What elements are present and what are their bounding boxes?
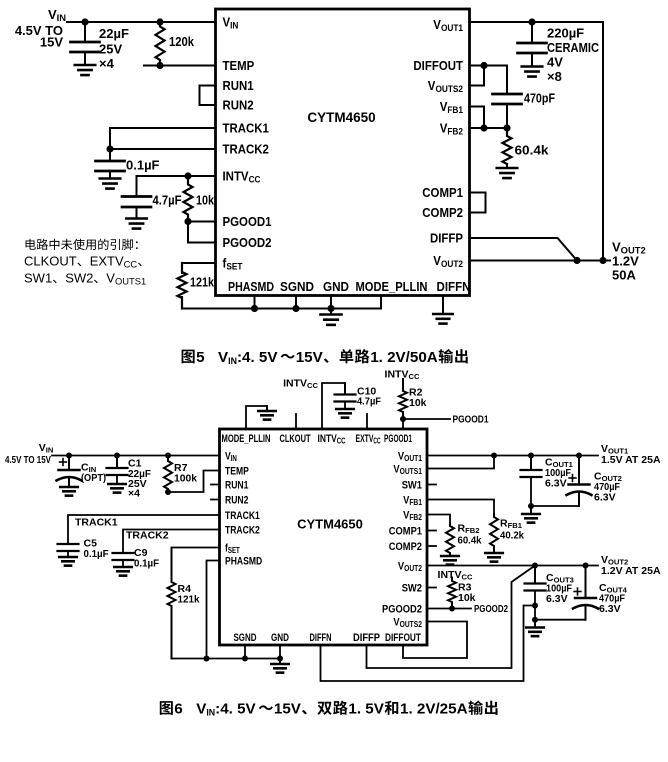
svg-text:TRACK2: TRACK2 bbox=[223, 142, 269, 157]
svg-text:TEMP: TEMP bbox=[223, 58, 255, 73]
svg-text:5: 5 bbox=[196, 349, 205, 366]
svg-text:SW2: SW2 bbox=[65, 271, 93, 286]
svg-text:CLKOUT: CLKOUT bbox=[280, 433, 311, 445]
svg-text:CERAMIC: CERAMIC bbox=[547, 40, 600, 55]
svg-text:DIFFP: DIFFP bbox=[430, 231, 463, 246]
svg-text:COMP2: COMP2 bbox=[422, 205, 463, 220]
svg-text:4.5V TO 15V: 4.5V TO 15V bbox=[5, 454, 51, 466]
svg-text:1.5V AT 25A: 1.5V AT 25A bbox=[601, 454, 661, 466]
svg-text:DIFFOUT: DIFFOUT bbox=[385, 632, 421, 644]
svg-text:CYTM4650: CYTM4650 bbox=[307, 110, 375, 125]
svg-text:PHASMD: PHASMD bbox=[228, 279, 274, 294]
svg-text:×8: ×8 bbox=[547, 69, 562, 84]
svg-text:TEMP: TEMP bbox=[225, 465, 249, 477]
svg-text:RUN2: RUN2 bbox=[225, 494, 248, 506]
svg-text:TRACK1: TRACK1 bbox=[223, 121, 269, 136]
svg-text:121k: 121k bbox=[190, 275, 215, 290]
svg-text:15V: 15V bbox=[40, 35, 63, 50]
svg-text:TRACK2: TRACK2 bbox=[126, 530, 169, 542]
svg-text:4.7µF: 4.7µF bbox=[357, 396, 382, 408]
svg-text:VIN​:4. 5V: VIN​:4. 5V bbox=[218, 349, 278, 366]
svg-text:6.3V: 6.3V bbox=[546, 593, 568, 605]
svg-text:TRACK2: TRACK2 bbox=[225, 524, 260, 536]
svg-text:PGOOD2: PGOOD2 bbox=[223, 235, 272, 250]
svg-text:100k: 100k bbox=[174, 473, 197, 485]
svg-text:DIFFN: DIFFN bbox=[310, 632, 332, 644]
svg-text:1. 2V/25A: 1. 2V/25A bbox=[400, 701, 468, 718]
svg-text:MODE_PLLIN: MODE_PLLIN bbox=[222, 433, 271, 445]
svg-text:0.1µF: 0.1µF bbox=[84, 548, 110, 560]
svg-text:GND: GND bbox=[323, 279, 349, 294]
svg-text:6.3V: 6.3V bbox=[594, 492, 616, 504]
svg-text:4.7µF: 4.7µF bbox=[153, 193, 182, 208]
svg-text:×4: ×4 bbox=[128, 488, 140, 500]
svg-text:25V: 25V bbox=[99, 42, 122, 57]
svg-text:SGND: SGND bbox=[234, 632, 257, 644]
svg-text:6: 6 bbox=[174, 701, 182, 718]
svg-text:SW2: SW2 bbox=[402, 582, 422, 594]
svg-text:6.3V: 6.3V bbox=[545, 478, 567, 490]
svg-text:SW1: SW1 bbox=[24, 271, 52, 286]
svg-text:RUN2: RUN2 bbox=[223, 98, 254, 113]
svg-text:121k: 121k bbox=[178, 594, 200, 606]
svg-text:1.2V AT 25A: 1.2V AT 25A bbox=[601, 565, 661, 577]
svg-text:220µF: 220µF bbox=[547, 26, 584, 41]
svg-text:GND: GND bbox=[271, 632, 289, 644]
svg-text:COMP2: COMP2 bbox=[389, 541, 422, 553]
svg-text:SW1: SW1 bbox=[402, 479, 422, 491]
svg-text:120k: 120k bbox=[169, 34, 195, 49]
svg-text:PGOOD2: PGOOD2 bbox=[382, 603, 422, 615]
svg-text:DIFFOUT: DIFFOUT bbox=[413, 58, 463, 73]
svg-text:COMP1: COMP1 bbox=[422, 185, 463, 200]
svg-text:15V: 15V bbox=[296, 349, 324, 366]
svg-text:60.4k: 60.4k bbox=[458, 535, 482, 547]
svg-text:×4: ×4 bbox=[99, 56, 115, 71]
svg-text:50A: 50A bbox=[612, 268, 636, 283]
svg-text:22µF: 22µF bbox=[99, 26, 129, 41]
svg-text:RUN1: RUN1 bbox=[225, 479, 248, 491]
svg-text:PGOOD1: PGOOD1 bbox=[223, 214, 272, 229]
svg-text:10k: 10k bbox=[409, 397, 427, 409]
svg-text:RUN1: RUN1 bbox=[223, 78, 254, 93]
svg-text:PGOOD2: PGOOD2 bbox=[474, 603, 508, 615]
svg-text:60.4k: 60.4k bbox=[515, 143, 550, 158]
svg-text:VIN​:4. 5V: VIN​:4. 5V bbox=[196, 701, 256, 718]
svg-text:10k: 10k bbox=[196, 193, 215, 208]
svg-text:40.2k: 40.2k bbox=[500, 530, 524, 542]
svg-text:CYTM4650: CYTM4650 bbox=[297, 517, 363, 532]
svg-text:470pF: 470pF bbox=[524, 91, 555, 106]
svg-text:1. 5V: 1. 5V bbox=[348, 701, 384, 718]
svg-text:15V: 15V bbox=[274, 701, 302, 718]
svg-text:0.1µF: 0.1µF bbox=[126, 158, 160, 173]
svg-text:6.3V: 6.3V bbox=[599, 603, 621, 615]
svg-text:PGOOD1: PGOOD1 bbox=[384, 433, 412, 445]
svg-text:4V: 4V bbox=[547, 55, 563, 70]
svg-text:PGOOD1: PGOOD1 bbox=[453, 414, 489, 426]
svg-text:PHASMD: PHASMD bbox=[225, 555, 262, 567]
svg-text:1. 2V/50A: 1. 2V/50A bbox=[370, 349, 438, 366]
svg-text:1.2V: 1.2V bbox=[612, 254, 639, 269]
svg-text:SGND: SGND bbox=[280, 279, 314, 294]
svg-text:DIFFP: DIFFP bbox=[353, 632, 380, 644]
svg-text:CLKOUT: CLKOUT bbox=[24, 254, 77, 269]
svg-text:0.1µF: 0.1µF bbox=[134, 558, 160, 570]
svg-text:MODE_PLLIN: MODE_PLLIN bbox=[356, 279, 428, 294]
svg-text:TRACK1: TRACK1 bbox=[75, 517, 118, 529]
svg-text:DIFFN: DIFFN bbox=[437, 279, 471, 294]
svg-text:(OPT): (OPT) bbox=[81, 472, 106, 484]
svg-text:TRACK1: TRACK1 bbox=[225, 510, 260, 522]
svg-text:COMP1: COMP1 bbox=[389, 525, 422, 537]
